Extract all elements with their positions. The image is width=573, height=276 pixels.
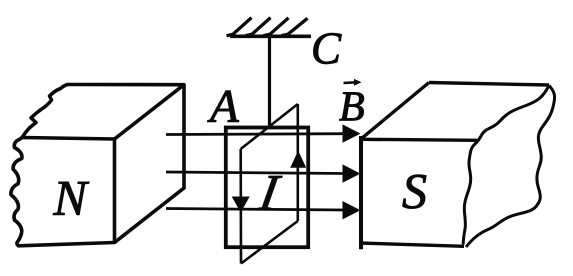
magnet S pole: inner torn edge (top-face right + front-face right) <box>463 86 549 245</box>
current arrow down (left wire) <box>232 197 250 213</box>
magnet S pole: front face bottom edge <box>359 243 464 246</box>
magnet S pole: outer torn right edge <box>466 86 555 248</box>
coil loop: right side wire <box>296 104 299 221</box>
magnet N pole: right (pole) face <box>115 85 185 243</box>
coil frame rectangle <box>226 128 308 248</box>
svg-text:B: B <box>339 85 365 131</box>
magnet N pole: front face with torn left edge <box>11 138 115 246</box>
field line 1 arrowhead <box>343 124 361 142</box>
suspension rod <box>268 37 271 127</box>
field line 3 <box>166 209 346 211</box>
coil loop: top slant wire <box>241 104 298 149</box>
vector arrow over B <box>344 81 357 84</box>
field line 2 <box>166 172 346 174</box>
hatch 2 <box>246 18 271 36</box>
magnet S pole: top face left slant edge <box>362 83 430 139</box>
hatch 3 <box>264 18 289 36</box>
coil loop: bottom slant wire <box>241 221 298 264</box>
hatch 1 <box>227 18 252 36</box>
coil loop: left side wire <box>239 149 242 264</box>
ceiling line <box>230 34 311 38</box>
current arrow up (right wire) <box>290 151 306 168</box>
magnet S pole: top face back edge <box>429 83 549 86</box>
svg-text:N: N <box>53 170 90 226</box>
field line 3 arrowhead <box>343 201 361 219</box>
magnet S pole: front face top edge <box>360 139 477 140</box>
field line 1 <box>166 132 346 136</box>
field line 2 arrowhead <box>343 164 361 182</box>
label I <box>254 165 285 222</box>
hatch 4 <box>282 18 308 35</box>
magnet S pole: front face left (pole) edge <box>359 136 363 249</box>
magnet N pole: top face (left slant edge torn) <box>22 85 184 140</box>
ceiling support hatching <box>227 18 312 37</box>
svg-text:S: S <box>402 163 427 219</box>
svg-text:A: A <box>207 81 239 133</box>
svg-text:C: C <box>311 24 342 74</box>
